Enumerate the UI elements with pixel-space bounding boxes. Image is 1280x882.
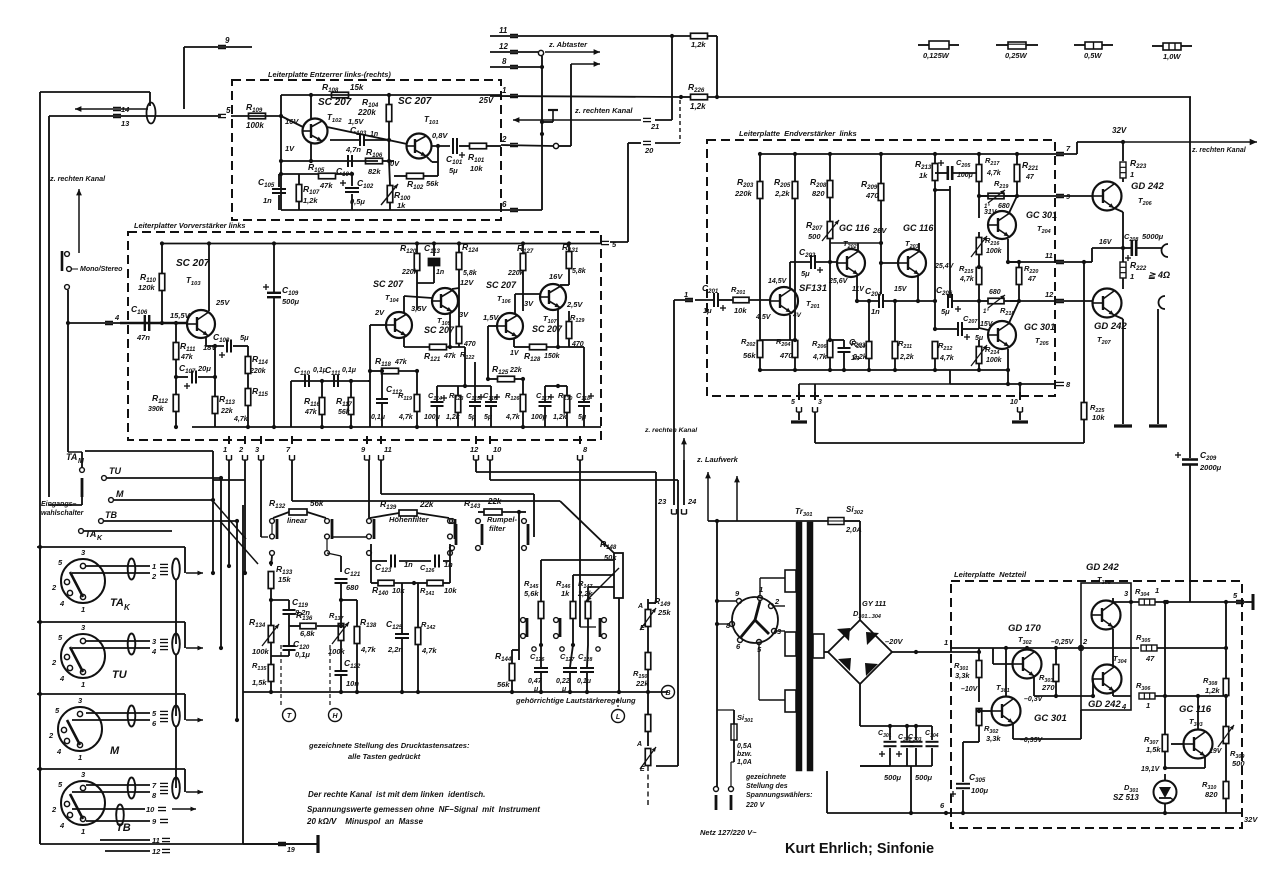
svg-text:2: 2 (51, 658, 57, 667)
wire R223 col (1122, 142, 1124, 161)
arrow z rechten kanal down (683, 438, 685, 460)
capacitor C112 (376, 398, 388, 400)
svg-text:47k: 47k (180, 354, 194, 361)
wire T304 emit (1112, 691, 1114, 696)
svg-text:100μ: 100μ (424, 414, 441, 421)
svg-text:500: 500 (1232, 759, 1245, 768)
transistor T203 (898, 249, 926, 277)
ground T207 (1114, 424, 1132, 427)
wire T105 emit (449, 313, 451, 347)
svg-text:4,7k: 4,7k (398, 414, 414, 421)
wire port3 down (814, 412, 816, 443)
svg-text:SC 207: SC 207 (373, 279, 404, 289)
wire port20 (628, 142, 641, 144)
svg-text:4: 4 (56, 747, 62, 756)
bridge diode 4 (865, 663, 878, 676)
svg-text:Spannungswählers:: Spannungswählers: (746, 792, 813, 799)
connector oval row 5 (128, 706, 136, 727)
wire C110 net rail (291, 380, 370, 382)
port 20 (643, 140, 651, 142)
svg-text:1,2k: 1,2k (303, 196, 318, 205)
resistor R222 (1120, 262, 1126, 278)
capacitor C122 (335, 670, 348, 672)
wire port11 rail (490, 35, 672, 37)
capacitor C117 (539, 401, 552, 403)
capacitor C128 (580, 667, 594, 669)
wire T104 coll to T105 base (403, 296, 405, 313)
resistor R304 (1139, 599, 1155, 605)
resistor R116 (319, 398, 325, 415)
svg-text:alle Tasten gedrückt: alle Tasten gedrückt (348, 752, 421, 761)
wire left rail x40 (39, 92, 41, 844)
svg-text:4V: 4V (792, 312, 802, 319)
wire tap3 (588, 586, 614, 588)
resistor R138 (354, 627, 360, 644)
resistor R302 (976, 709, 982, 726)
svg-text:1°: 1° (983, 309, 989, 315)
resistor R123 (455, 396, 461, 413)
bus vertical b (175, 655, 177, 716)
resistor R124 (456, 253, 462, 270)
resistor R141 (427, 580, 443, 586)
resistor R129 (566, 322, 572, 339)
svg-text:120k: 120k (138, 283, 156, 292)
port 7 Vorverstaerker (291, 436, 293, 444)
svg-text:4,7k: 4,7k (812, 354, 828, 361)
socket M (58, 707, 102, 751)
wire transformer right bottom (826, 771, 828, 813)
Leiterplatte Netzteil dashed box (951, 581, 1242, 828)
resistor R125 (498, 376, 515, 382)
wire line 14 (75, 108, 148, 110)
wire x628 to port5 (627, 143, 629, 242)
svg-text:2: 2 (774, 597, 780, 606)
svg-text:19V: 19V (1209, 748, 1223, 755)
svg-text:2: 2 (51, 805, 57, 814)
wire R125 line (488, 378, 498, 380)
wire row 3 (86, 640, 150, 642)
svg-text:20: 20 (644, 146, 654, 155)
resistor R126 (520, 395, 526, 412)
svg-text:M: M (110, 745, 120, 757)
switch contact R143 b (476, 519, 481, 524)
socket pins M (77, 711, 82, 716)
wire R104 (388, 95, 390, 104)
resistor R150 (645, 653, 651, 670)
resistor R305 (1141, 645, 1157, 651)
resistor R151 (645, 715, 651, 732)
svg-text:1: 1 (684, 290, 688, 299)
resistor R118 (382, 368, 399, 374)
svg-text:56k: 56k (338, 409, 351, 416)
resistor R226 (691, 94, 708, 100)
svg-text:TU: TU (109, 466, 121, 476)
resistor R101 (470, 143, 487, 149)
svg-text:500μ: 500μ (282, 297, 300, 306)
resistor R127 (520, 254, 526, 271)
svg-text:15k: 15k (278, 575, 291, 584)
svg-text:z. Laufwerk: z. Laufwerk (696, 455, 739, 464)
svg-text:1k: 1k (397, 201, 406, 210)
wire R149-R150 (647, 627, 649, 652)
wire port3 stub (814, 384, 816, 396)
svg-text:150k: 150k (544, 353, 561, 360)
bridge diode 1 (837, 628, 850, 641)
svg-text:220 V: 220 V (745, 802, 766, 809)
potentiometer R100 (387, 186, 393, 203)
svg-text:270: 270 (1041, 683, 1055, 692)
svg-text:470: 470 (779, 351, 793, 360)
wire port10 stub (1019, 384, 1021, 396)
svg-text:47k: 47k (319, 181, 333, 190)
connector oval bus row 5 (172, 706, 180, 727)
svg-text:1k: 1k (919, 171, 928, 180)
transistor T201 SF131 (770, 287, 798, 315)
svg-text:47: 47 (1027, 276, 1037, 283)
svg-text:T: T (287, 713, 292, 720)
port 14 (113, 106, 121, 108)
transformer primary winding3 (785, 690, 796, 712)
switch contact R132 b (325, 519, 330, 524)
svg-text:16V: 16V (285, 117, 299, 126)
wire port9 line (979, 195, 1055, 197)
wire caps to bottom (910, 766, 912, 813)
wire port11 line (1008, 261, 1055, 263)
svg-text:1n: 1n (436, 269, 444, 276)
transistor T302 (1013, 650, 1042, 679)
transistor T304 (1093, 665, 1122, 694)
wire port12 drop (475, 460, 477, 472)
svg-text:220k: 220k (507, 270, 525, 277)
wire hoehen top (370, 544, 372, 561)
svg-text:10k: 10k (444, 586, 457, 595)
svg-text:0,8V: 0,8V (432, 131, 448, 140)
svg-text:31V: 31V (984, 209, 998, 216)
wire vert x571 (570, 64, 572, 146)
wire bottom bank (40, 843, 317, 845)
svg-text:0,125W: 0,125W (923, 51, 950, 60)
resistor R205 (792, 182, 798, 199)
svg-text:20 kΩ/V Minuspol an Masse: 20 kΩ/V Minuspol an Masse (306, 817, 424, 826)
svg-text:10: 10 (493, 445, 502, 454)
socket TU (61, 634, 105, 678)
switch contact R143 a (450, 519, 455, 524)
svg-text:22k: 22k (220, 408, 234, 415)
port 7 (1056, 151, 1064, 153)
capacitor C126 (534, 667, 548, 669)
socket TA (61, 559, 105, 603)
svg-text:1,2k: 1,2k (446, 414, 461, 421)
wire port12 line (490, 51, 538, 53)
wire inner box left (280, 95, 282, 210)
connector oval bus row 7 (172, 778, 180, 799)
bridge diode 3 (838, 658, 851, 671)
svg-text:22k: 22k (419, 500, 434, 509)
rotor TA (70, 572, 83, 597)
capacitor C205 (946, 166, 949, 180)
wire row 7 (86, 784, 150, 786)
resistor R144 (509, 664, 515, 681)
svg-text:GC 116: GC 116 (903, 223, 934, 233)
svg-text:500μ: 500μ (915, 773, 933, 782)
svg-text:Leiterplatte Entzerrer links-(: Leiterplatte Entzerrer links-(rechts) (268, 70, 391, 79)
wire base T104 (370, 324, 386, 326)
svg-text:GY 111: GY 111 (862, 599, 886, 608)
resistor 1,2k top (691, 33, 708, 39)
wire R143 drop (518, 512, 520, 660)
capacitor C305 (962, 742, 964, 782)
svg-text:1n: 1n (404, 560, 413, 569)
svg-text:5,8k: 5,8k (572, 268, 587, 275)
selector rotor (755, 601, 760, 620)
wire T305 coll (1112, 598, 1114, 603)
svg-text:2,5V: 2,5V (566, 300, 583, 309)
transistor T104 (386, 312, 412, 338)
resistor R212 (932, 342, 938, 359)
wire C107 node (176, 376, 188, 378)
svg-text:4,7n: 4,7n (345, 145, 361, 154)
capacitor C113 dark (428, 259, 440, 262)
wire col271 (271, 556, 272, 566)
wire port10 drop (489, 460, 491, 480)
resistor R210 (866, 342, 872, 359)
svg-text:47: 47 (1025, 174, 1035, 181)
port 13 (113, 113, 121, 115)
rotor TU (70, 647, 83, 672)
svg-text:z. rechten Kanal: z. rechten Kanal (574, 106, 633, 115)
volume rail (243, 691, 668, 693)
resistor R112 (173, 395, 179, 412)
svg-text:10k: 10k (1092, 413, 1105, 422)
transistor T103 (187, 310, 215, 338)
resistor R131 (566, 252, 572, 269)
capacitor C106 (144, 315, 146, 331)
svg-text:1,5V: 1,5V (483, 313, 499, 322)
svg-text:1: 1 (944, 638, 948, 647)
svg-text:1: 1 (81, 680, 85, 689)
svg-text:5: 5 (226, 106, 231, 115)
switch contact R139 a (367, 519, 372, 524)
svg-text:5μ: 5μ (449, 166, 458, 175)
svg-text:SC 207: SC 207 (398, 96, 432, 107)
wire 0V node (382, 160, 394, 162)
wire si302 down (859, 521, 861, 620)
wire selector pin1 tap (759, 578, 761, 595)
svg-text:820: 820 (1205, 790, 1218, 799)
svg-text:1: 1 (223, 445, 227, 454)
svg-text:5μ: 5μ (484, 414, 493, 421)
wire T205 coll (1009, 301, 1019, 323)
wire selector pin8 (717, 623, 729, 625)
socket pins TA (80, 563, 85, 568)
pot arrow R100 (381, 184, 398, 205)
Leiterplatte Endverstaerker dashed box (707, 140, 1055, 396)
T mark (548, 109, 558, 111)
resistor R206 (827, 341, 833, 358)
svg-text:6,8k: 6,8k (300, 629, 315, 638)
resistor R128 (530, 344, 547, 350)
connector oval bus row 1 (172, 559, 180, 580)
wire port11 jog (1084, 261, 1092, 263)
wire C209 down (1189, 465, 1191, 602)
resistor R202 (757, 341, 763, 358)
svg-text:5: 5 (791, 399, 795, 406)
port 9 Vorverstaerker (366, 436, 368, 444)
wire R132 contacts (271, 524, 273, 534)
svg-text:15V: 15V (980, 321, 994, 328)
svg-text:Höhenfilter: Höhenfilter (389, 515, 430, 524)
bus vertical h (236, 521, 238, 720)
contact loud a (521, 618, 526, 623)
mains contact 2 (729, 787, 734, 792)
transistor T301 (992, 697, 1021, 726)
capacitor C206 (947, 294, 949, 308)
svg-text:3V: 3V (524, 299, 534, 308)
svg-text:Netz 127/220 V~: Netz 127/220 V~ (700, 828, 757, 837)
svg-text:1V: 1V (285, 144, 295, 153)
svg-text:220k: 220k (357, 108, 376, 117)
svg-text:4,7k: 4,7k (360, 645, 376, 654)
port 10 Vorverstaerker (489, 436, 491, 444)
svg-text:1,2k: 1,2k (690, 102, 706, 111)
resistor R220 (1016, 268, 1022, 285)
port 1 endv (685, 297, 693, 299)
ground speaker2 (1149, 424, 1167, 427)
transistor T303 (1184, 730, 1213, 759)
capacitor C203 (838, 347, 851, 349)
resistor R301 (976, 661, 982, 678)
svg-text:Mono/Stereo: Mono/Stereo (80, 266, 123, 273)
svg-text:A: A (637, 603, 643, 610)
wire linear feed (292, 500, 560, 502)
svg-text:0V: 0V (390, 159, 400, 168)
wire T203 base (881, 262, 898, 264)
wire R128 line (514, 346, 530, 348)
svg-text:E: E (640, 766, 645, 773)
svg-text:13: 13 (121, 119, 130, 128)
wire T202 coll (857, 243, 859, 251)
port 12 (1056, 298, 1064, 300)
socket pins TB (80, 785, 85, 790)
wire T303 base (1171, 743, 1184, 745)
wire col341 (327, 553, 341, 556)
wire T102 to T101 base (327, 127, 407, 144)
svg-text:0,5μ: 0,5μ (350, 197, 365, 206)
wire line 13 (49, 115, 221, 117)
port 9 (218, 44, 226, 46)
wire port1 25V rail (490, 96, 681, 97)
pot R137 (338, 624, 344, 641)
arrow second (571, 63, 600, 65)
svg-text:0,5W: 0,5W (1084, 51, 1102, 60)
wire collector T101 out (431, 145, 450, 147)
selector pins (758, 596, 763, 601)
svg-text:680: 680 (989, 289, 1001, 296)
bus vertical a (175, 580, 177, 644)
svg-text:11V: 11V (852, 286, 865, 293)
wire 32V rail (1076, 142, 1078, 154)
resistor R136 (300, 623, 316, 629)
resistor R143 (484, 509, 502, 515)
bus vertical c (175, 727, 177, 788)
svg-text:24: 24 (687, 497, 697, 506)
svg-text:Spannungswerte gemessen ohne: Spannungswerte gemessen ohne NF–Signal m… (307, 805, 540, 814)
ground port5 (798, 412, 800, 420)
resistor R147 (585, 602, 591, 619)
svg-text:B: B (665, 690, 670, 697)
wire emitter T102 down (310, 143, 312, 161)
wire tap1 (541, 559, 614, 561)
wire T203 coll (918, 243, 920, 251)
svg-text:12: 12 (1045, 290, 1054, 299)
switch Mono/Stereo (65, 252, 70, 257)
resistor R106 (366, 158, 383, 164)
fuse Si302 (828, 518, 844, 525)
svg-text:1: 1 (502, 86, 507, 95)
svg-text:100k: 100k (252, 647, 270, 656)
arrow z. Abtaster (545, 51, 600, 53)
svg-text:GC 301: GC 301 (1026, 210, 1057, 220)
wire T301 base (979, 710, 992, 712)
wire C206 vert (949, 190, 951, 298)
wire speaker2 down (1157, 309, 1159, 424)
socket TB (61, 781, 105, 825)
svg-text:linear: linear (287, 516, 308, 525)
wire C205 drop (935, 189, 950, 191)
svg-text:2: 2 (501, 135, 507, 144)
wire row 12 (105, 850, 150, 852)
svg-text:100k: 100k (246, 121, 264, 130)
svg-text:5μ: 5μ (468, 414, 477, 421)
legend resistor 0.125W (918, 44, 929, 46)
wire bus x542 (541, 56, 543, 210)
wire R212 col (934, 190, 936, 329)
svg-text:2,2k: 2,2k (577, 589, 593, 598)
switch contact R143 c (522, 519, 527, 524)
connector oval row 3 (128, 634, 136, 655)
svg-text:4: 4 (114, 313, 120, 322)
wire -035 row (1013, 738, 1081, 740)
wire left input vert (67, 290, 69, 452)
resistor R215 (976, 268, 982, 285)
resistor R139 (399, 510, 417, 516)
ground port5 psu (1252, 594, 1255, 610)
wire inner box top (281, 94, 501, 96)
capacitor C111 (333, 375, 335, 387)
capacitor C109 (267, 292, 281, 294)
resistor R119 (414, 395, 420, 412)
wire R105 line (281, 173, 319, 175)
svg-text:5μ: 5μ (801, 269, 810, 278)
arrow z rechten kanal top (1123, 141, 1257, 143)
wire C113 (433, 244, 435, 257)
svg-text:11: 11 (1045, 251, 1053, 260)
wire TAM to right (85, 450, 213, 452)
feeder row 7 (37, 768, 185, 770)
wire row 5 (86, 712, 150, 714)
svg-text:100μ: 100μ (971, 786, 989, 795)
wire port8 drop (579, 460, 581, 627)
wire left rail switch bank (39, 545, 41, 844)
resistor R105 (319, 173, 336, 179)
wire dash lower (647, 766, 649, 806)
resistor R130 (564, 396, 570, 413)
connector circle abtaster (538, 50, 543, 55)
wire R302 bottom (963, 741, 979, 743)
pot arrow R219 (988, 190, 1005, 203)
svg-text:2: 2 (1082, 637, 1088, 646)
pot R148 volume (614, 553, 623, 598)
